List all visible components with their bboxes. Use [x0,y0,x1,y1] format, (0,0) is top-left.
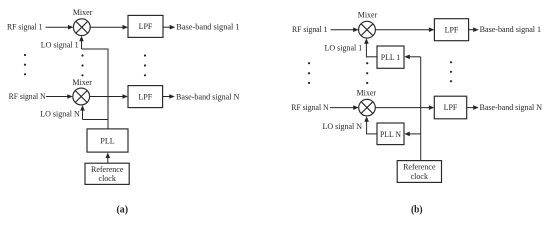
label: Mixer (M2, a) [72,78,92,87]
mixer M2 (a) [73,88,90,105]
wire: reference clock into PLL (a) [106,153,111,164]
node: Base-band signal 1 output label (b) [480,25,541,34]
label: LO signal N (a) [40,110,80,119]
ellipsis: LPF column (b) [450,61,452,82]
node: Base-band signal 1 output label (a) [176,23,239,32]
svg-text:clock: clock [99,174,116,183]
label: Mixer (M4, b) [357,88,377,97]
svg-text:Mixer: Mixer [72,78,92,87]
wire: LPF N output (b) [467,105,479,110]
node: RF signal N input label (b) [291,103,329,112]
svg-text:Mixer: Mixer [358,11,378,20]
svg-text:LPF: LPF [139,22,153,31]
svg-text:Reference: Reference [403,163,436,172]
wire: LPF 1 output (b) [469,27,479,32]
svg-text:(a): (a) [117,204,129,216]
svg-text:LO signal N: LO signal N [323,122,363,131]
label: LO signal 1 (b) [325,44,363,53]
ellipsis: LPF column (a) [144,54,146,76]
LPF N (a) [128,86,163,108]
svg-text:LPF: LPF [444,103,458,112]
node: Base-band signal N output label (b) [480,103,543,112]
node: Base-band signal N output label (a) [176,93,240,102]
wire: RF signal 1 into mixer M1 (a) [46,25,74,30]
wire: RF signal N into mixer M4 (b) [330,105,359,110]
label: Mixer (M1, a) [73,8,93,17]
svg-text:RF signal N: RF signal N [9,92,46,101]
svg-text:RF signal N: RF signal N [291,103,329,112]
caption (a) [117,204,129,216]
svg-text:Base-band signal 1: Base-band signal 1 [176,23,239,32]
svg-text:PLL: PLL [100,136,114,145]
svg-text:PLL 1: PLL 1 [381,53,401,62]
svg-text:LO signal 1: LO signal 1 [325,44,363,53]
svg-text:LPF: LPF [445,25,459,34]
label: LO signal 1 (a) [41,40,79,49]
wire: reference bus into PLL N (b) [404,132,420,137]
mixer M4 (b) [359,99,376,116]
wire: LO branch horizontal to mixer M2 (a) [83,119,109,121]
wire: M1 output to LPF 1 (a) [90,25,128,30]
wire: PLL N output into mixer M4 LO port (b) [364,116,377,134]
wire: M2 output to LPF N, crosses LO bus (a) [90,94,128,99]
reference clock source (b) [397,161,441,183]
PLL U1 (a) [87,129,128,152]
svg-text:RF signal 1: RF signal 1 [292,25,328,34]
caption (b) [411,204,423,216]
PLL 1 (b) [377,46,404,68]
node: RF signal 1 input label (b) [292,25,328,34]
wire: M3 output to LPF 1 (b) [375,27,434,32]
svg-text:Mixer: Mixer [73,8,93,17]
ellipsis: mixer column (a) [81,54,83,76]
ellipsis: mixer column (b) [366,62,368,84]
wire: M4 output to LPF N, crosses reference bus (b) [375,105,434,110]
svg-text:Base-band signal N: Base-band signal N [176,93,240,102]
wire: LPF 1 output (a) [163,25,175,30]
label: Mixer (M3, b) [358,11,378,20]
label: LO signal N (b) [323,122,363,131]
svg-text:PLL N: PLL N [380,130,401,139]
svg-text:Reference: Reference [91,165,124,174]
svg-text:Base-band signal N: Base-band signal N [480,103,543,112]
svg-text:LO signal N: LO signal N [40,110,80,119]
svg-text:Mixer: Mixer [357,88,377,97]
svg-text:Base-band signal 1: Base-band signal 1 [480,25,541,34]
svg-text:RF signal 1: RF signal 1 [7,23,43,32]
wire: LO bus vertical from PLL (a) [107,49,109,129]
wire: LPF N output (a) [163,94,175,99]
node: RF signal 1 input label (a) [7,23,43,32]
LPF 1 (a) [128,15,163,37]
wire: RF signal 1 into mixer M3 (b) [331,27,359,32]
mixer M1 (a) [73,19,90,36]
mixer M3 (b) [359,21,376,38]
ellipsis: RF inputs column (b) [308,62,310,84]
wire: LO input into mixer M1 (a) [79,36,84,49]
svg-text:LO signal 1: LO signal 1 [41,40,79,49]
wire: RF signal N into mixer M2 (a) [46,94,73,99]
wire: LO input into mixer M2 (a) [80,105,85,119]
wire: reference bus into PLL 1 (b) [404,55,420,60]
ellipsis: RF inputs column (a) [24,54,26,76]
LPF 1 (b) [434,19,468,41]
wire: PLL 1 output into mixer M3 LO port (b) [364,38,377,57]
node: RF signal N input label (a) [9,92,46,101]
wire: reference clock bus vertical (b) [420,57,422,161]
svg-text:(b): (b) [411,204,423,216]
svg-text:clock: clock [411,172,428,181]
LPF N (b) [434,96,466,119]
svg-text:LPF: LPF [138,92,152,101]
PLL N (b) [377,123,404,145]
reference clock source (a) [85,163,129,184]
wire: LO bus top horizontal segment (a) [82,48,109,50]
